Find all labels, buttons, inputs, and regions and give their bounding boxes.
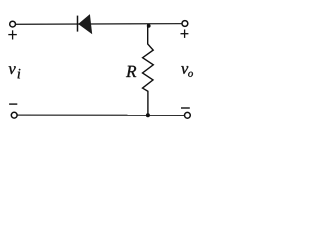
terminal top-right	[182, 21, 188, 27]
minus label bottom-right	[181, 107, 190, 109]
plus label top-right	[181, 30, 189, 38]
resistor R zigzag with leads	[143, 24, 154, 115]
terminal bottom-right	[185, 112, 191, 118]
minus label bottom-left	[9, 103, 17, 105]
node v_o label	[181, 66, 188, 74]
plus label top-left	[8, 30, 16, 39]
terminal top-left	[10, 21, 16, 27]
wire top (input to output along top rail)	[16, 23, 182, 26]
diode D1 cathode bar	[77, 16, 79, 32]
diode D1 triangle	[78, 14, 92, 34]
resistor value label R	[126, 66, 136, 77]
node v_i label	[9, 66, 16, 74]
wire bottom rail	[17, 114, 184, 116]
terminal bottom-left	[11, 112, 17, 118]
node junction top (resistor tap)	[147, 24, 151, 28]
node junction bottom (resistor to bottom rail)	[146, 113, 150, 117]
